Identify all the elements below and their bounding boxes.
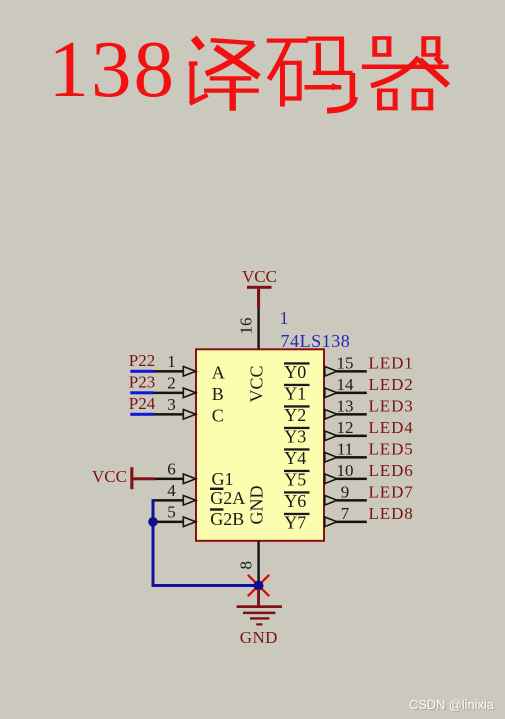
svg-text:LED3: LED3 (369, 397, 414, 416)
svg-text:13: 13 (337, 397, 354, 416)
svg-text:LED7: LED7 (369, 483, 414, 502)
wire pin1 (154, 370, 184, 373)
pin arrow 5 (183, 517, 196, 527)
ground symbol bar4 (256, 623, 262, 625)
wire blue horizontal to ground node (152, 584, 256, 587)
svg-text:11: 11 (337, 440, 353, 459)
svg-text:15: 15 (337, 354, 354, 373)
power flag VCC top stem (257, 289, 260, 309)
svg-text:P23: P23 (129, 373, 155, 392)
wire blue segment pin2 (130, 391, 153, 394)
svg-text:5: 5 (167, 503, 176, 522)
svg-text:GND: GND (247, 486, 267, 525)
svg-text:LED1: LED1 (369, 354, 414, 373)
svg-text:Y5: Y5 (284, 469, 306, 489)
power flag VCC left bar (130, 467, 133, 489)
ground node junction dot (254, 581, 264, 591)
wire pin13 (337, 413, 367, 416)
ground symbol bar2 (243, 612, 275, 615)
svg-text:74LS138: 74LS138 (281, 331, 351, 351)
wire pin4 (154, 499, 184, 502)
pin arrow 12 (325, 431, 337, 441)
svg-text:2: 2 (167, 374, 176, 393)
svg-text:VCC: VCC (247, 365, 267, 402)
svg-text:9: 9 (341, 483, 350, 502)
svg-text:8: 8 (237, 561, 256, 570)
svg-text:Y6: Y6 (284, 491, 306, 511)
svg-text:3: 3 (167, 395, 176, 414)
svg-text:1: 1 (280, 308, 289, 328)
svg-text:LED6: LED6 (369, 461, 414, 480)
title text 138 (49, 24, 177, 114)
svg-text:C: C (212, 406, 224, 426)
ground node X marker (248, 575, 269, 596)
pin arrow 3 (183, 410, 196, 420)
pin arrow 11 (325, 453, 337, 463)
pin arrow 4 (183, 496, 196, 506)
power flag VCC left stem (133, 477, 154, 480)
svg-text:G1: G1 (212, 469, 234, 489)
wire pin2 (154, 392, 184, 395)
svg-text:14: 14 (337, 375, 355, 394)
svg-text:P22: P22 (129, 351, 155, 370)
wire pin5 (156, 521, 183, 524)
pin arrow 14 (325, 388, 337, 398)
svg-text:LED5: LED5 (369, 440, 414, 459)
svg-text:A: A (212, 363, 225, 383)
wire blue segment pin3 (130, 413, 153, 416)
wire blue vertical (pins 4-5 to ground node) (152, 499, 155, 587)
svg-text:LED8: LED8 (369, 504, 414, 523)
svg-text:G2B: G2B (210, 509, 244, 529)
pin arrow 13 (325, 410, 337, 420)
svg-text:Y2: Y2 (284, 405, 306, 425)
overline for G2B (210, 508, 223, 510)
svg-text:Y4: Y4 (284, 448, 306, 468)
wire pin12 (337, 435, 367, 438)
pin arrow 7 (325, 517, 337, 527)
wire pin15 (337, 370, 367, 373)
svg-text:P24: P24 (129, 394, 156, 413)
ground symbol bar1 (237, 605, 282, 608)
pin arrow 10 (325, 474, 337, 484)
pin arrow 15 (325, 367, 337, 377)
wire pin7 (337, 521, 367, 524)
svg-text:12: 12 (337, 418, 354, 437)
wire pin11 (337, 456, 367, 459)
title glyph 器 (362, 37, 449, 111)
svg-text:VCC: VCC (92, 467, 127, 486)
svg-text:6: 6 (167, 460, 176, 479)
pin names Y0-Y7 with overlines (284, 362, 310, 533)
ground symbol stem (257, 589, 260, 606)
wire blue segment pin1 (130, 370, 153, 373)
pin arrow 9 (325, 496, 337, 506)
svg-text:LED2: LED2 (369, 375, 414, 394)
pin arrow 1 (183, 367, 196, 377)
power flag VCC top bar (247, 286, 272, 289)
wire pin16 vertical (257, 308, 259, 349)
pin arrow 6 (183, 474, 196, 484)
svg-text:1: 1 (167, 352, 176, 371)
svg-text:4: 4 (167, 481, 176, 500)
svg-text:VCC: VCC (242, 267, 277, 286)
ground symbol bar3 (250, 617, 269, 619)
svg-text:G2A: G2A (210, 488, 245, 508)
title glyph 译 (189, 38, 259, 111)
wire pin14 (337, 392, 367, 395)
svg-text:16: 16 (237, 318, 256, 335)
svg-text:138: 138 (49, 24, 177, 114)
pin arrow 2 (183, 388, 196, 398)
wire pin6 (155, 478, 184, 481)
svg-text:Y0: Y0 (284, 362, 306, 382)
title glyph 码 (267, 39, 355, 111)
junction dot (pin5) (148, 517, 158, 527)
overline for G2A (210, 488, 223, 490)
svg-text:CSDN @linixia: CSDN @linixia (409, 697, 495, 712)
wire pin10 (337, 478, 367, 481)
svg-text:Y1: Y1 (284, 383, 306, 403)
svg-text:B: B (212, 384, 224, 404)
wire pin3 (154, 413, 184, 416)
svg-text:7: 7 (341, 504, 350, 523)
IC U1 74LS138 body (196, 349, 324, 541)
wire pin9 (337, 499, 367, 502)
svg-text:Y3: Y3 (284, 426, 306, 446)
svg-text:LED4: LED4 (369, 418, 414, 437)
svg-text:10: 10 (337, 461, 354, 480)
wire pin8 vertical (257, 541, 259, 586)
svg-text:GND: GND (240, 628, 278, 647)
svg-text:Y7: Y7 (284, 512, 306, 532)
